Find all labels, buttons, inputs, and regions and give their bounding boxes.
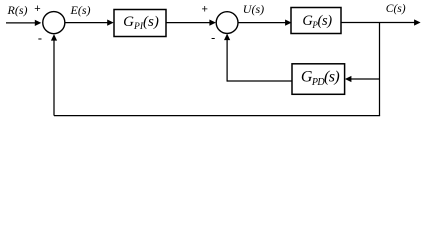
svg-text:R(s): R(s): [7, 3, 28, 17]
svg-text:GP(s): GP(s): [302, 13, 332, 30]
svg-text:U(s): U(s): [243, 2, 264, 16]
svg-text:-: -: [38, 30, 42, 45]
svg-text:+: +: [34, 3, 40, 15]
svg-text:E(s): E(s): [70, 3, 91, 17]
svg-text:C(s): C(s): [386, 3, 406, 15]
svg-text:+: +: [202, 4, 208, 16]
svg-text:-: -: [211, 30, 215, 45]
